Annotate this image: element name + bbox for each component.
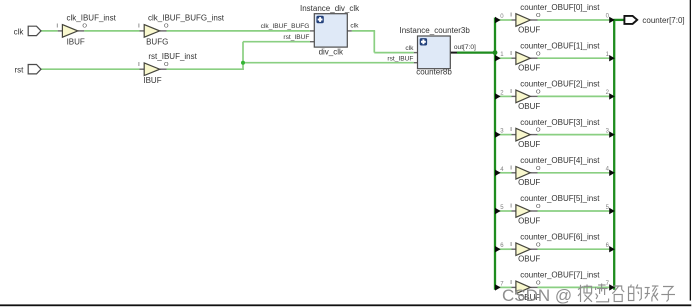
svg-text:O: O xyxy=(536,13,541,19)
svg-text:clk_IBUF_BUFG_inst: clk_IBUF_BUFG_inst xyxy=(148,14,225,23)
svg-text:counter_OBUF[3]_inst: counter_OBUF[3]_inst xyxy=(520,118,600,127)
svg-text:clk: clk xyxy=(350,23,359,30)
svg-text:clk: clk xyxy=(14,27,25,36)
svg-text:O: O xyxy=(164,24,169,30)
svg-text:OBUF: OBUF xyxy=(518,64,540,73)
svg-text:counter_OBUF[2]_inst: counter_OBUF[2]_inst xyxy=(520,80,600,89)
svg-text:counter_OBUF[0]_inst: counter_OBUF[0]_inst xyxy=(520,3,600,12)
svg-text:clk_IBUF_inst: clk_IBUF_inst xyxy=(67,14,117,23)
svg-text:counter_OBUF[1]_inst: counter_OBUF[1]_inst xyxy=(520,41,600,50)
svg-text:BUFG: BUFG xyxy=(146,38,168,47)
svg-text:OBUF: OBUF xyxy=(518,140,540,149)
svg-text:counter8b: counter8b xyxy=(416,68,452,77)
svg-text:O: O xyxy=(164,62,169,68)
svg-text:O: O xyxy=(536,51,541,57)
svg-text:O: O xyxy=(82,24,87,30)
svg-text:O: O xyxy=(536,242,541,248)
svg-text:counter_OBUF[6]_inst: counter_OBUF[6]_inst xyxy=(520,232,600,241)
svg-text:rst_IBUF_inst: rst_IBUF_inst xyxy=(148,52,197,61)
svg-text:clk_IBUF_BUFG: clk_IBUF_BUFG xyxy=(261,23,310,30)
svg-text:counter_OBUF[4]_inst: counter_OBUF[4]_inst xyxy=(520,156,600,165)
svg-text:O: O xyxy=(536,90,541,96)
svg-text:rst_IBUF: rst_IBUF xyxy=(283,34,309,41)
svg-text:OBUF: OBUF xyxy=(518,216,540,225)
svg-text:counter_OBUF[7]_inst: counter_OBUF[7]_inst xyxy=(520,271,600,280)
svg-text:OBUF: OBUF xyxy=(518,178,540,187)
svg-text:OBUF: OBUF xyxy=(518,25,540,34)
svg-text:counter[7:0]: counter[7:0] xyxy=(642,16,684,25)
svg-text:out[7:0]: out[7:0] xyxy=(454,44,476,51)
svg-text:counter_OBUF[5]_inst: counter_OBUF[5]_inst xyxy=(520,194,600,203)
svg-text:rst_IBUF: rst_IBUF xyxy=(387,55,413,62)
svg-text:O: O xyxy=(536,204,541,210)
svg-text:clk: clk xyxy=(405,45,414,52)
svg-text:O: O xyxy=(536,166,541,172)
svg-text:Instance_counter3b: Instance_counter3b xyxy=(400,26,471,35)
svg-text:div_clk: div_clk xyxy=(319,47,344,56)
svg-text:OBUF: OBUF xyxy=(518,255,540,264)
svg-text:IBUF: IBUF xyxy=(143,76,161,85)
svg-text:CSDN @: CSDN @ xyxy=(502,286,572,305)
svg-text:OBUF: OBUF xyxy=(518,102,540,111)
svg-text:O: O xyxy=(536,128,541,134)
svg-text:rst: rst xyxy=(15,66,25,75)
svg-text:IBUF: IBUF xyxy=(67,38,85,47)
svg-text:Instance_div_clk: Instance_div_clk xyxy=(300,4,360,13)
